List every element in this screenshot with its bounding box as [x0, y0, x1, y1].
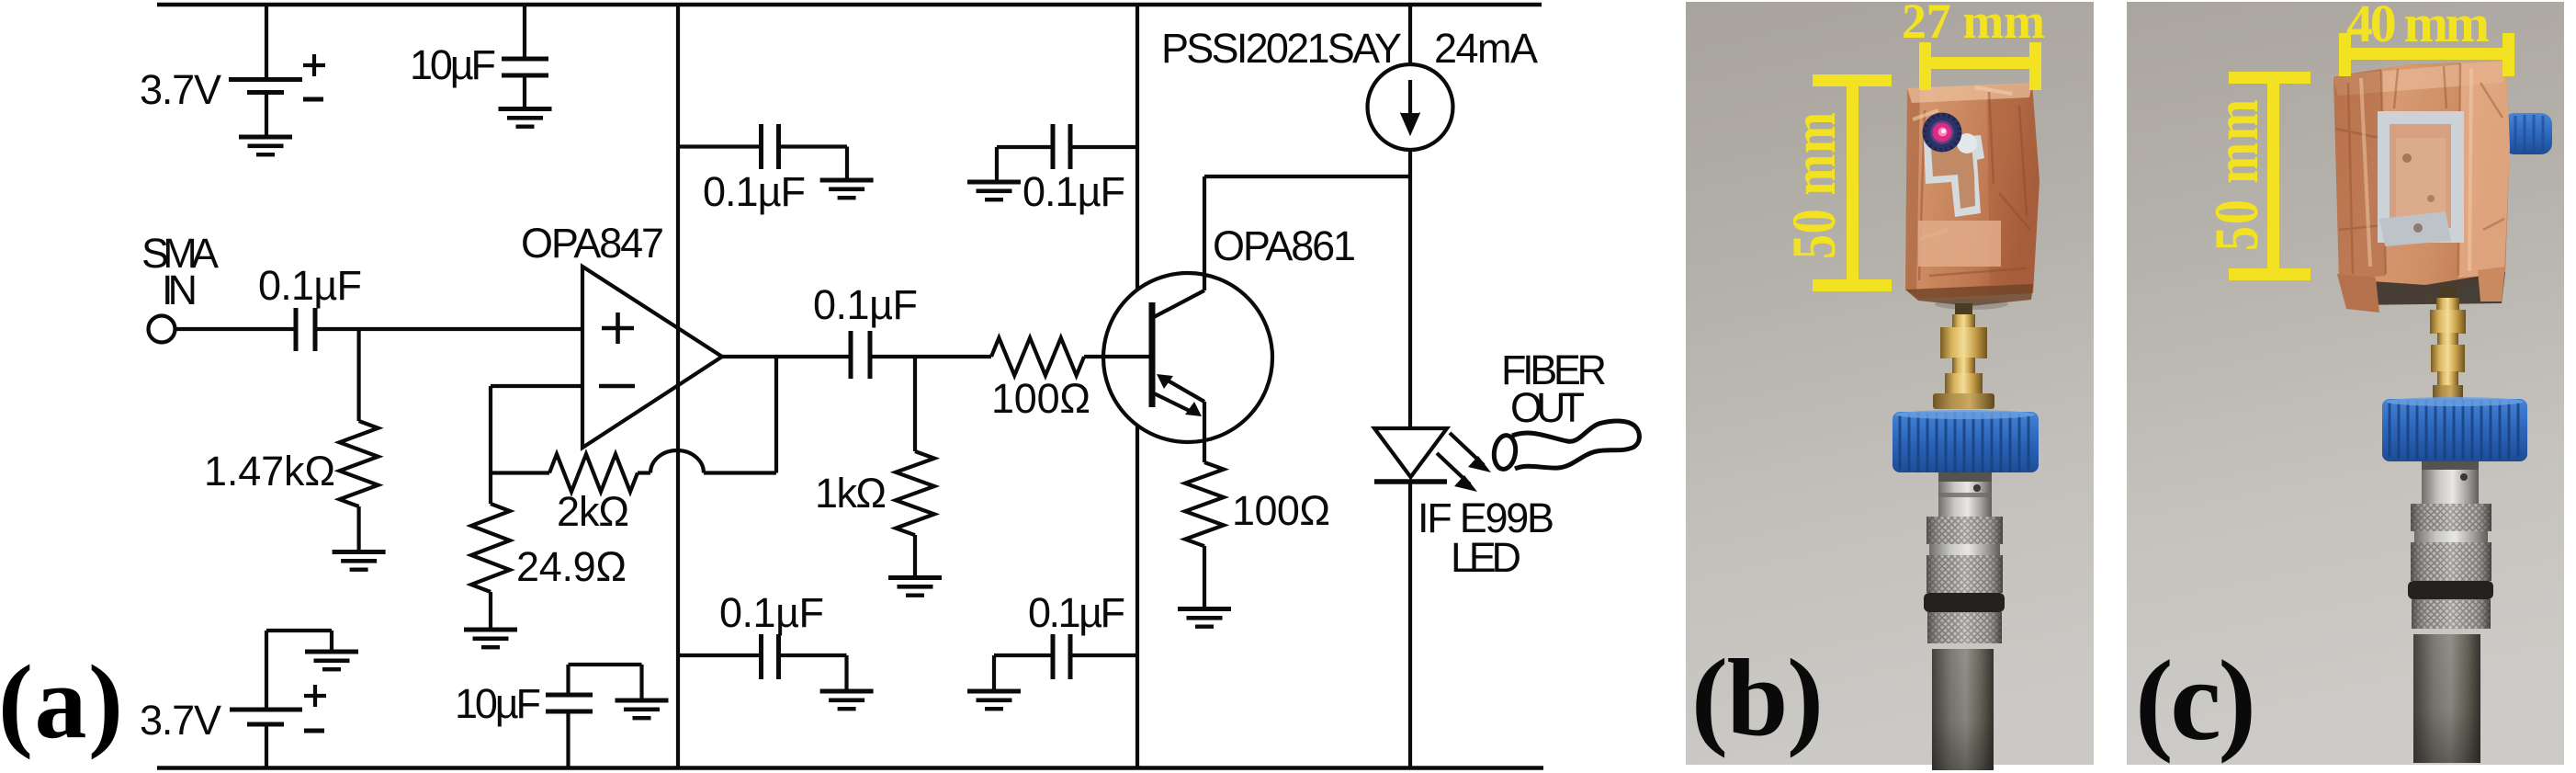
- svg-text:10µF: 10µF: [410, 41, 496, 88]
- svg-text:100Ω: 100Ω: [991, 375, 1090, 422]
- svg-text:24mA: 24mA: [1434, 25, 1538, 72]
- svg-text:(c): (c): [2135, 638, 2256, 765]
- svg-text:100Ω: 100Ω: [1232, 487, 1330, 534]
- svg-text:0.1µF: 0.1µF: [813, 281, 918, 328]
- svg-text:10µF: 10µF: [455, 680, 541, 727]
- svg-text:27 mm: 27 mm: [1902, 0, 2045, 49]
- svg-text:0.1µF: 0.1µF: [258, 262, 362, 309]
- svg-text:24.9Ω: 24.9Ω: [516, 543, 627, 590]
- svg-text:50 mm: 50 mm: [2203, 99, 2271, 251]
- svg-text:0.1µF: 0.1µF: [1022, 168, 1125, 215]
- svg-text:0.1µF: 0.1µF: [703, 168, 806, 215]
- svg-text:1.47kΩ: 1.47kΩ: [204, 448, 335, 494]
- svg-text:OPA861: OPA861: [1213, 222, 1356, 269]
- svg-text:0.1µF: 0.1µF: [1028, 589, 1125, 636]
- svg-text:(b): (b): [1691, 636, 1824, 758]
- svg-text:2kΩ: 2kΩ: [557, 488, 629, 535]
- svg-text:0.1µF: 0.1µF: [719, 589, 824, 636]
- svg-text:1kΩ: 1kΩ: [815, 470, 887, 517]
- svg-text:PSSI2021SAY: PSSI2021SAY: [1161, 25, 1402, 72]
- svg-text:OPA847: OPA847: [521, 220, 664, 267]
- svg-text:LED: LED: [1451, 534, 1521, 581]
- svg-text:OUT: OUT: [1510, 384, 1585, 431]
- svg-text:50 mm: 50 mm: [1779, 112, 1848, 259]
- svg-text:IN: IN: [162, 267, 198, 313]
- svg-text:3.7V: 3.7V: [140, 66, 221, 113]
- svg-text:40 mm: 40 mm: [2346, 0, 2490, 53]
- svg-text:(a): (a): [0, 643, 123, 760]
- svg-text:3.7V: 3.7V: [140, 697, 221, 744]
